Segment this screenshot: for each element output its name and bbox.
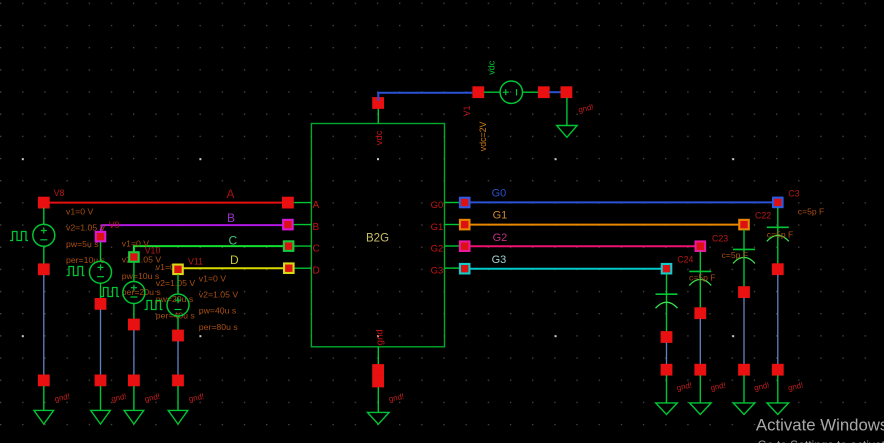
svg-text:V10: V10: [145, 246, 161, 256]
wire G2: [465, 245, 701, 247]
V10 param per: [156, 310, 196, 320]
vdc source V1 circle: [500, 81, 522, 103]
V11 name label: [188, 256, 203, 266]
node vdd junction: [372, 97, 384, 109]
block gnd node square 2: [372, 376, 384, 388]
capacitor C23 terminal square: [695, 240, 707, 252]
pin G2 stub: [445, 245, 460, 247]
svg-text:v2=1.05 V: v2=1.05 V: [156, 278, 196, 288]
wire B riser: [101, 225, 288, 231]
svg-text:Go to Settings to activate Win: Go to Settings to activate Windows.: [758, 438, 884, 443]
V10 stub bottom: [133, 304, 135, 320]
V8 minus sign: [40, 239, 47, 241]
svg-text:G2: G2: [493, 232, 508, 244]
V9 name label: [109, 220, 120, 230]
V8 plus sign: [41, 228, 47, 234]
net label G0: [492, 188, 507, 200]
gnd! label V10: [144, 392, 161, 404]
wire vdd: [378, 93, 472, 101]
V9 stub bottom: [100, 283, 102, 299]
V9 pulse glyph: [67, 267, 85, 276]
wire V9 to gnd: [100, 309, 102, 375]
V11 pulse glyph: [145, 301, 163, 310]
vpulse V11 circle: [167, 294, 189, 316]
vpulse V9 terminal + square: [95, 231, 107, 243]
ground below C3: [767, 375, 789, 414]
capacitor C24 terminal square: [661, 263, 673, 275]
V11 minus sign: [175, 309, 182, 311]
V1 label: [462, 105, 472, 116]
C23 wire through cap: [699, 251, 701, 308]
svg-text:V1: V1: [462, 105, 472, 116]
C23 value label: [722, 250, 749, 260]
svg-text:C: C: [229, 233, 238, 247]
svg-text:G2: G2: [431, 243, 444, 254]
vpulse V11 terminal + square: [172, 264, 184, 276]
svg-text:c=5p F: c=5p F: [689, 273, 716, 283]
gnd! label block: [388, 392, 405, 404]
pin A label: [313, 200, 320, 211]
svg-text:pw=5u s: pw=5u s: [66, 239, 99, 249]
svg-text:G0: G0: [431, 200, 444, 211]
net label G3: [492, 254, 507, 266]
block gnd node square 1: [372, 364, 384, 376]
ground below C22: [733, 375, 755, 414]
wire V11 to gnd: [177, 341, 179, 375]
V1 terminal - square: [538, 86, 550, 98]
svg-text:vdc: vdc: [487, 60, 497, 75]
svg-text:V9: V9: [109, 220, 120, 230]
ground below C24: [656, 375, 678, 414]
wire G3: [465, 268, 667, 270]
ground below V9: [91, 386, 111, 424]
ground below V8: [34, 386, 54, 424]
svg-text:per=10u s: per=10u s: [66, 255, 106, 265]
V1 plus sign: [503, 89, 509, 95]
capacitor C22 terminal square: [738, 219, 750, 231]
pin gnd stub: [377, 347, 379, 365]
gnd node square C22: [738, 364, 750, 376]
V8 param pw: [66, 239, 99, 249]
pin B stub: [294, 224, 312, 226]
svg-text:B: B: [227, 211, 235, 225]
pin C label: [313, 244, 320, 255]
wire V1 to gnd: [549, 91, 561, 93]
C23 name label: [712, 234, 728, 244]
svg-text:G0: G0: [492, 188, 507, 200]
wire V8 to gnd: [43, 275, 45, 375]
V9 plus sign: [98, 264, 104, 270]
gnd node square V11: [172, 375, 184, 387]
V1 minus sign: [516, 89, 518, 96]
pin G3 label: [431, 266, 444, 277]
svg-text:pw=40u s: pw=40u s: [199, 306, 237, 316]
ground below block: [368, 387, 390, 424]
wire C3 to gnd: [777, 275, 779, 365]
vpulse V10 terminal + square: [128, 251, 140, 263]
gnd! label C24: [676, 381, 693, 393]
vpulse V11 terminal - square: [172, 330, 184, 342]
gnd node square top: [561, 86, 573, 98]
capacitor C23 bottom terminal: [694, 307, 706, 319]
V1 minus stub: [523, 91, 539, 93]
gnd node square V9: [95, 375, 107, 387]
C3 name label: [788, 188, 799, 198]
vpulse V10 circle: [123, 282, 145, 304]
svg-text:vdc: vdc: [374, 130, 385, 145]
V8 stub bottom: [43, 246, 45, 264]
V11 param v2: [199, 290, 239, 300]
pin G3 stub: [445, 267, 460, 269]
net label G1: [493, 210, 508, 222]
svg-text:C3: C3: [788, 188, 799, 198]
svg-text:gnd: gnd: [374, 329, 385, 345]
gnd node square C3: [772, 364, 784, 376]
wire C22 to gnd: [743, 298, 745, 365]
svg-text:G3: G3: [492, 254, 507, 266]
svg-text:c=5p F: c=5p F: [798, 207, 825, 217]
svg-text:V11: V11: [188, 256, 203, 266]
net label D: [230, 253, 239, 267]
V11 stub top: [177, 274, 179, 294]
capacitor C24 bottom terminal: [661, 331, 673, 343]
block label B2G: [366, 233, 389, 245]
node D at block: [283, 262, 295, 274]
node G0 at block: [459, 197, 471, 209]
V9 param v2: [122, 255, 162, 265]
V1 label vdc: [487, 60, 497, 75]
svg-text:B: B: [313, 222, 320, 233]
V8 name label: [54, 188, 65, 198]
pin B label: [313, 222, 320, 233]
svg-text:vdc=2V: vdc=2V: [478, 121, 488, 151]
C22 value label: [767, 230, 794, 240]
V1 plus stub: [484, 91, 500, 93]
capacitor C22 bottom terminal: [738, 286, 750, 298]
gnd! label C23: [710, 381, 727, 393]
pin G1 label: [431, 222, 444, 233]
svg-text:C: C: [313, 244, 320, 255]
gnd node square V8: [38, 375, 50, 387]
wire V10 to gnd: [133, 330, 135, 375]
svg-text:V8: V8: [54, 188, 65, 198]
node G2 at block: [459, 240, 471, 252]
pin vdc label: [374, 130, 385, 145]
svg-text:Activate Windows: Activate Windows: [756, 416, 884, 435]
vpulse V8 circle: [33, 224, 55, 246]
V10 param pw: [156, 294, 194, 304]
net label C: [229, 233, 238, 247]
ground gnd1 top: [557, 98, 577, 138]
V8 param v2: [66, 223, 106, 233]
block U1 B2G outline: [311, 124, 444, 347]
V11 plus sign: [175, 297, 181, 303]
C24 value label: [689, 273, 716, 283]
V10 param v1: [156, 262, 183, 272]
gnd node square V10: [128, 375, 140, 387]
capacitor C23 plates: [689, 271, 711, 285]
wire C riser: [134, 246, 288, 252]
pin vdc stub: [377, 108, 379, 123]
V11 stub bottom: [177, 316, 179, 331]
capacitor C24 plates: [656, 294, 678, 308]
bright grid dots: [22, 158, 734, 337]
node B at block: [282, 219, 294, 231]
V10 name label: [145, 246, 161, 256]
capacitor C3 terminal square: [772, 197, 784, 209]
wire G0: [465, 201, 778, 203]
pin D label: [313, 266, 320, 277]
pin C stub: [294, 245, 312, 247]
V10 stub top: [133, 262, 135, 282]
svg-text:C24: C24: [677, 255, 693, 265]
pin G0 stub: [445, 202, 460, 204]
gnd node square C23: [694, 364, 706, 376]
wire C24 to gnd: [666, 343, 668, 365]
V8 param per: [66, 255, 106, 265]
C3 value label: [798, 207, 825, 217]
svg-text:c=5p F: c=5p F: [767, 230, 794, 240]
wire A: [44, 202, 288, 204]
svg-text:C23: C23: [712, 234, 728, 244]
V8 pulse glyph: [10, 232, 28, 241]
V9 param pw: [122, 271, 160, 281]
net label A: [227, 187, 235, 201]
V10 minus sign: [130, 296, 137, 298]
gnd! label C22: [753, 381, 770, 393]
vpulse V10 terminal - square: [128, 319, 140, 331]
V1 terminal + square: [472, 86, 484, 98]
vpulse V9 terminal - square: [95, 298, 107, 310]
svg-text:pw=10u s: pw=10u s: [122, 271, 160, 281]
V9 param per: [122, 287, 162, 297]
svg-text:C22: C22: [755, 210, 771, 220]
ground below C23: [690, 375, 712, 414]
pin gnd label: [374, 329, 385, 345]
V9 param v1: [122, 239, 149, 249]
node C at block: [283, 240, 295, 252]
C24 wire through cap: [666, 274, 668, 332]
node A at block: [282, 197, 294, 209]
ground below V11: [168, 386, 188, 424]
capacitor C3 plates: [767, 227, 789, 241]
gnd node square C24: [661, 364, 673, 376]
vpulse V9 circle: [90, 261, 112, 283]
net label B: [227, 211, 235, 225]
capacitor C3 bottom terminal: [772, 263, 784, 275]
gnd! label V11: [188, 392, 205, 404]
pin G2 label: [431, 243, 444, 254]
wire G1: [465, 224, 744, 226]
svg-text:B2G: B2G: [366, 233, 389, 245]
gnd! label C3: [787, 381, 804, 393]
node G3 at block: [459, 263, 471, 275]
watermark line 2: [758, 438, 884, 443]
V10 plus sign: [131, 285, 137, 291]
svg-text:G3: G3: [431, 266, 444, 277]
svg-text:G1: G1: [493, 210, 508, 222]
svg-text:G1: G1: [431, 222, 444, 233]
gnd! label V9: [110, 392, 127, 404]
wire C23 to gnd: [699, 319, 701, 365]
gnd! label V8: [54, 392, 71, 404]
pin G0 label: [431, 200, 444, 211]
vpulse V8 terminal + square: [38, 197, 50, 209]
vpulse V8 terminal - square: [38, 263, 50, 275]
svg-text:v1=0 V: v1=0 V: [66, 207, 93, 217]
pin A stub: [294, 202, 312, 204]
pin G1 stub: [445, 224, 460, 226]
V1 label vdc=2V: [478, 121, 488, 151]
net label G2: [493, 232, 508, 244]
V11 param v1: [199, 273, 226, 283]
svg-text:D: D: [230, 253, 239, 267]
svg-text:v1=0 V: v1=0 V: [199, 273, 226, 283]
V9 stub top: [100, 242, 102, 262]
V10 pulse glyph: [101, 288, 119, 297]
V11 param per: [199, 322, 239, 332]
C24 name label: [677, 255, 693, 265]
gnd! label top: [577, 102, 594, 114]
svg-text:c=5p F: c=5p F: [722, 250, 749, 260]
V8 param v1: [66, 207, 93, 217]
svg-text:A: A: [227, 187, 235, 201]
C22 wire through cap: [743, 230, 745, 288]
svg-text:v2=1.05 V: v2=1.05 V: [199, 290, 239, 300]
svg-text:D: D: [313, 266, 320, 277]
ground below V10: [124, 386, 144, 424]
pin D stub: [294, 267, 312, 269]
watermark line 1: [756, 416, 884, 435]
node G1 at block: [459, 219, 471, 231]
V9 minus sign: [97, 276, 104, 278]
C22 name label: [755, 210, 771, 220]
capacitor C22 plates: [733, 249, 755, 263]
V11 param pw: [199, 306, 237, 316]
C3 wire through cap: [777, 207, 779, 264]
svg-text:per=80u s: per=80u s: [199, 322, 239, 332]
svg-text:A: A: [313, 200, 320, 211]
V8 stub top: [43, 208, 45, 225]
V10 param v2: [156, 278, 196, 288]
wire D: [178, 267, 289, 269]
